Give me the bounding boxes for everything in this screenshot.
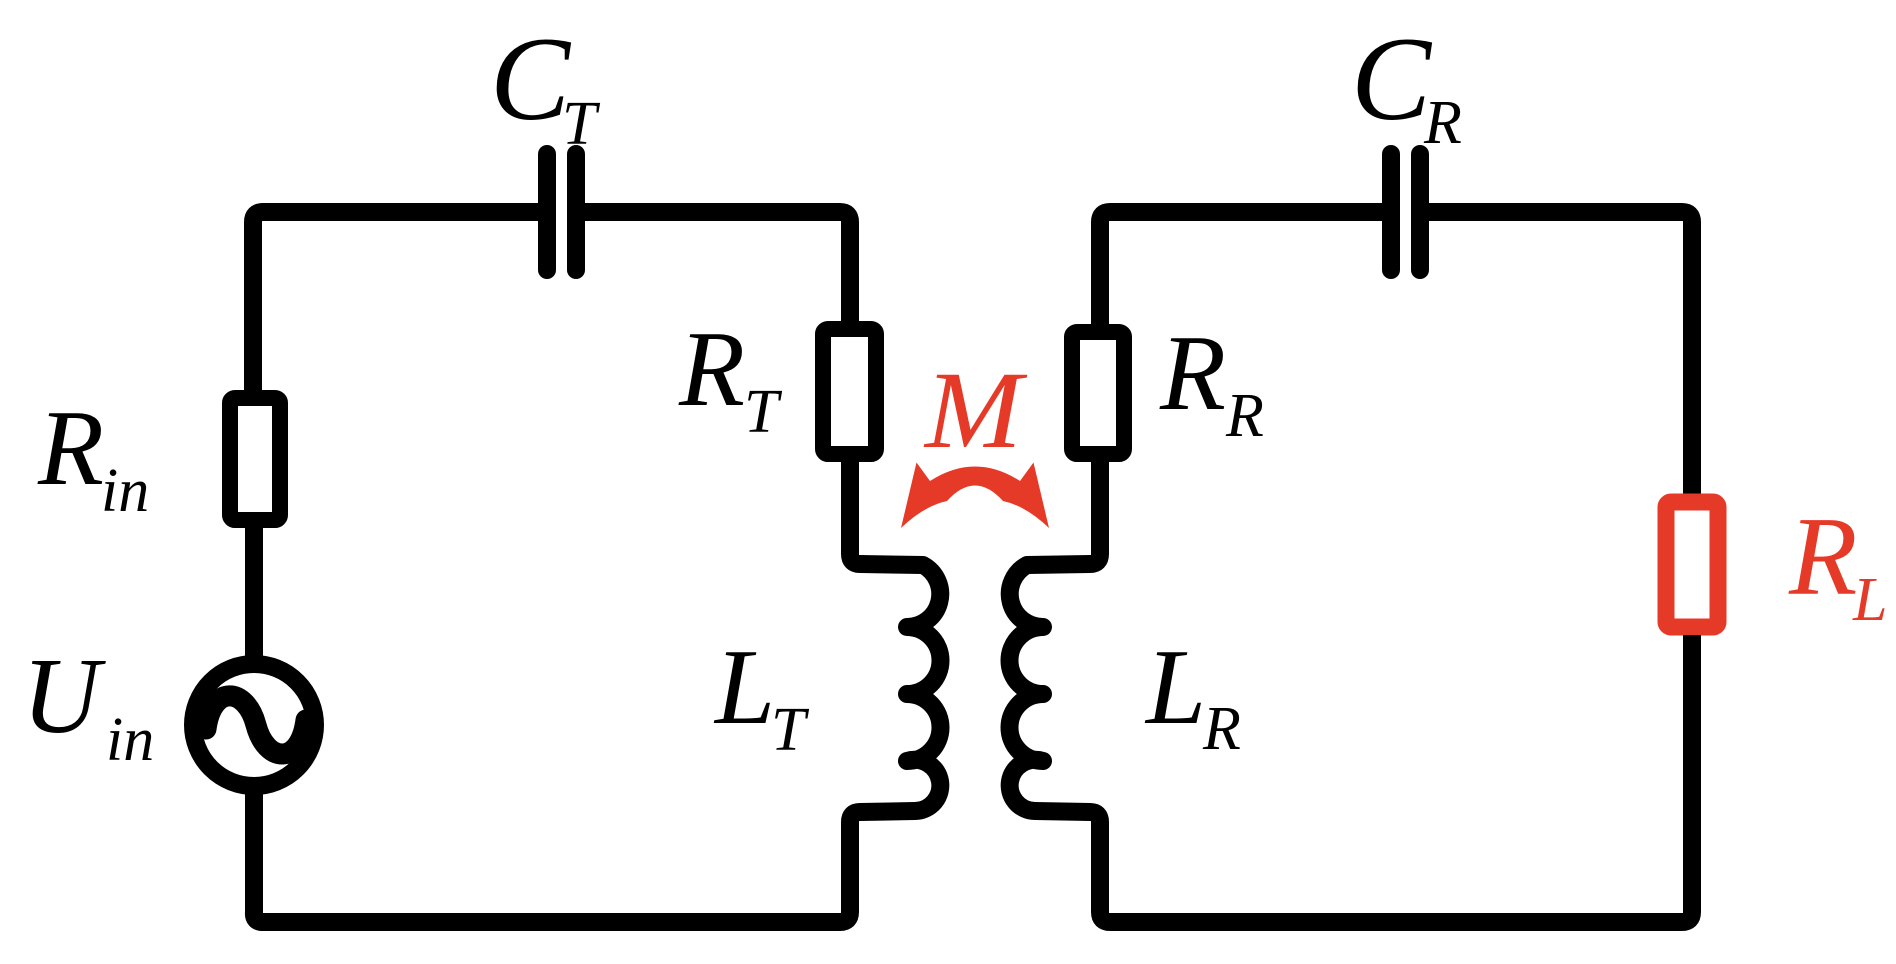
svg-text:R: R [1202, 695, 1241, 763]
label R_L [1788, 495, 1887, 634]
svg-text:R: R [1788, 495, 1857, 619]
svg-text:T: T [771, 696, 810, 764]
wire: R_in to source [245, 528, 263, 668]
wire: right loop top-right horizontal (C_R right plate to right side) [1429, 212, 1692, 494]
svg-text:M: M [923, 349, 1028, 471]
label R_R [1159, 314, 1264, 450]
wire: R_L to bottom and bottom wire of right loop [1130, 635, 1692, 922]
mutual inductance arrow [901, 463, 1049, 529]
svg-text:R: R [1159, 314, 1226, 433]
svg-text:R: R [1225, 382, 1264, 450]
inductor L_R (coil with leads) [1009, 454, 1150, 922]
label C_T [490, 12, 601, 158]
wire: left loop top-right horizontal (C_T right plate to R_T) [585, 212, 850, 321]
svg-text:in: in [106, 706, 154, 774]
resistor R_L (load, red) [1666, 502, 1718, 627]
inductor L_T (coil with leads) [800, 454, 941, 922]
svg-text:L: L [1852, 566, 1887, 634]
svg-text:T: T [562, 90, 601, 158]
capacitor C_T [547, 154, 576, 270]
resistor R_T [823, 329, 876, 454]
label U_in [22, 637, 154, 774]
svg-text:T: T [744, 378, 783, 446]
wire: left loop top-left horizontal (to C_T left plate) [253, 212, 538, 390]
svg-text:C: C [490, 12, 572, 145]
svg-text:R: R [37, 389, 104, 508]
resistor R_R [1072, 332, 1124, 454]
svg-text:C: C [1351, 12, 1433, 145]
svg-text:R: R [1423, 89, 1462, 157]
source U_in [193, 664, 315, 786]
resistor R_in [230, 398, 280, 520]
svg-text:in: in [101, 457, 149, 525]
label C_R [1351, 12, 1462, 157]
wire: source to bottom-left corner and bottom wire of left loop [254, 786, 820, 922]
svg-text:L: L [713, 628, 775, 747]
label L_T [713, 628, 810, 764]
wire: right loop top-left horizontal (to C_R left plate) [1100, 212, 1382, 332]
svg-text:R: R [678, 310, 745, 429]
label R_in [37, 389, 149, 525]
label L_R [1144, 628, 1241, 763]
capacitor C_R [1391, 154, 1420, 270]
svg-text:U: U [22, 637, 106, 756]
label R_T [678, 310, 783, 446]
svg-text:L: L [1144, 628, 1206, 747]
